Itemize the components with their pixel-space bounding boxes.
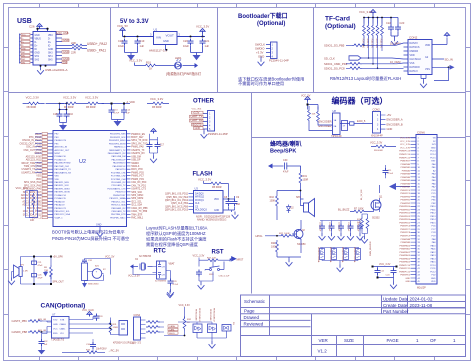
svg-text:PC14: PC14 <box>430 154 436 156</box>
right pin stubs <box>56 35 64 63</box>
svg-text:FMC_NBL1: FMC_NBL1 <box>131 218 144 220</box>
series resistor R30 <box>340 123 373 125</box>
svg-text:22R: 22R <box>71 41 76 45</box>
svg-text:Beep/SPK: Beep/SPK <box>270 149 296 155</box>
svg-text:TXD: TXD <box>53 320 58 322</box>
svg-text:VCC_3.3V: VCC_3.3V <box>193 255 205 258</box>
mcu inside right pin names <box>107 134 126 220</box>
svg-text:PE1/FMC_NBL1: PE1/FMC_NBL1 <box>110 217 126 219</box>
svg-text:FB 600R: FB 600R <box>152 106 162 109</box>
svg-text:VBU: VBU <box>48 35 53 37</box>
svg-text:OF: OF <box>430 338 437 343</box>
svg-text:CAN_RX_PD0: CAN_RX_PD0 <box>131 181 147 184</box>
ground right <box>191 46 203 55</box>
svg-text:ANT/OSC_IN: ANT/OSC_IN <box>55 146 68 149</box>
svg-text:VDD: VDD <box>425 44 430 47</box>
svg-text:PWM3_PC7: PWM3_PC7 <box>131 176 144 178</box>
capacitor C1 <box>122 39 128 46</box>
svg-text:VDD: VDD <box>214 199 219 201</box>
svg-text:DO/DQ1: DO/DQ1 <box>195 200 205 202</box>
svg-text:PA12: PA12 <box>431 251 437 254</box>
svg-text:PB14: PB14 <box>430 219 436 221</box>
svg-text:VCC_3.3V: VCC_3.3V <box>400 138 410 140</box>
svg-text:1uF: 1uF <box>205 44 210 48</box>
svg-text:PA15: PA15 <box>431 261 437 264</box>
svg-text:GND: GND <box>431 278 436 280</box>
svg-text:PWM/PA15: PWM/PA15 <box>399 261 410 264</box>
svg-text:C16: C16 <box>69 113 74 116</box>
svg-text:Update Date: Update Date <box>383 296 409 301</box>
svg-text:PWM/PA5: PWM/PA5 <box>401 179 411 182</box>
series resistors <box>28 320 42 323</box>
svg-text:SHLD: SHLD <box>169 333 175 335</box>
svg-text:PC13: PC13 <box>430 151 436 153</box>
svg-text:PC6/TIM3_CH1: PC6/TIM3_CH1 <box>111 172 127 174</box>
buzzer BZ1 <box>92 269 102 279</box>
svg-text:PESD1CAN: PESD1CAN <box>209 309 212 321</box>
svg-text:GND: GND <box>214 210 219 212</box>
transistor Q2 beep <box>294 230 303 239</box>
section divider vertical center <box>251 93 253 294</box>
svg-text:PWM/PA7: PWM/PA7 <box>401 186 411 189</box>
svg-text:QSPI_BK1_IO0_PD11: QSPI_BK1_IO0_PD11 <box>165 194 189 196</box>
cap C28 <box>205 267 213 271</box>
svg-text:(Optional): (Optional) <box>325 23 356 30</box>
note text bootloader usage <box>238 76 304 88</box>
border zone tick marks right <box>466 48 471 315</box>
svg-text:Part Number: Part Number <box>383 309 409 314</box>
svg-text:PC7/TIM3_CH2: PC7/TIM3_CH2 <box>111 176 127 178</box>
section divider vertical 5V/Bootloader <box>217 8 219 93</box>
svg-text:4.7uF: 4.7uF <box>114 112 120 114</box>
cap C11 <box>385 165 387 168</box>
svg-text:PB9/CAN1_TX: PB9/CAN1_TX <box>112 210 126 213</box>
esd diode D5 <box>333 248 335 251</box>
svg-text:SS8050: SS8050 <box>297 243 306 246</box>
svg-text:VCC_3.3V: VCC_3.3V <box>85 96 98 100</box>
svg-text:32.768KHZ: 32.768KHZ <box>155 281 167 283</box>
holder CON <box>82 263 88 281</box>
svg-text:GND: GND <box>96 224 102 227</box>
cap C25 <box>32 274 37 277</box>
note text boot0 <box>52 229 129 243</box>
gnd arrow top <box>167 291 174 298</box>
svg-text:SPI3_MOSI: SPI3_MOSI <box>131 198 143 200</box>
svg-text:U1: U1 <box>154 28 158 32</box>
svg-text:QSPI_BK1_IO1_PD12: QSPI_BK1_IO1_PD12 <box>165 200 189 202</box>
svg-text:C23: C23 <box>400 21 405 25</box>
section divider horizontal top row <box>9 92 466 94</box>
svg-text:GND: GND <box>53 324 58 326</box>
capacitor C4 <box>200 39 206 46</box>
svg-text:PWM/A2: PWM/A2 <box>402 169 411 172</box>
mosfet Q1 <box>371 200 381 210</box>
svg-text:PA4/SPI1_NSS: PA4/SPI1_NSS <box>55 181 70 184</box>
svg-text:USB-uCeF001-A: USB-uCeF001-A <box>45 68 68 72</box>
svg-text:SH4: SH4 <box>22 62 26 64</box>
svg-text:C21: C21 <box>205 39 210 43</box>
svg-text:1.0R: 1.0R <box>23 271 28 273</box>
svg-text:32.768KHZ: 32.768KHZ <box>139 255 152 258</box>
svg-text:VDD: VDD <box>55 179 60 181</box>
cap bank C34 <box>350 221 352 224</box>
cap C31 <box>82 259 87 264</box>
svg-text:U3: U3 <box>195 187 199 191</box>
svg-text:VCC_3.3V: VCC_3.3V <box>63 96 76 100</box>
svg-text:PWM/PA1: PWM/PA1 <box>401 166 411 169</box>
mcu inside left pin names <box>55 134 72 220</box>
cap C14 <box>121 108 127 115</box>
svg-text:C17: C17 <box>160 144 165 147</box>
svg-text:PESD1CAN-U: PESD1CAN-U <box>198 308 201 322</box>
svg-text:→RC_5V: →RC_5V <box>108 349 119 353</box>
svg-text:PA12/USB_DP: PA12/USB_DP <box>112 159 126 162</box>
svg-text:VCC_3V3: VCC_3V3 <box>192 108 203 110</box>
svg-text:PB10: PB10 <box>430 206 436 208</box>
svg-text:GND: GND <box>22 48 27 50</box>
svg-text:CH: CH <box>162 275 166 277</box>
wire top rail to connector <box>38 29 48 32</box>
svg-text:PC1/ADC11: PC1/ADC11 <box>55 159 67 162</box>
pullup resistor R32 <box>183 317 186 331</box>
wires right of U7 <box>69 317 93 334</box>
svg-text:PWM/PC7: PWM/PC7 <box>400 229 411 231</box>
svg-text:PWM/PC5: PWM/PC5 <box>400 193 411 195</box>
connector CON5 <box>208 111 215 132</box>
svg-text:DAT0/DO: DAT0/DO <box>410 66 420 69</box>
MCU U2 <box>53 131 127 227</box>
svg-text:SPK: SPK <box>296 196 301 199</box>
svg-text:PA10/USART1_RX: PA10/USART1_RX <box>108 152 126 155</box>
svg-text:1K: 1K <box>149 67 152 71</box>
resistor R29 <box>317 110 320 124</box>
svg-text:Bootloader下载口: Bootloader下载口 <box>238 12 288 20</box>
svg-text:CAN(Optional): CAN(Optional) <box>41 303 86 310</box>
svg-text:AMS1117-3.3: AMS1117-3.3 <box>149 49 167 53</box>
flash right wires <box>223 199 235 210</box>
svg-text:VCC_3.3V: VCC_3.3V <box>179 304 191 307</box>
note text flash layout <box>146 225 208 249</box>
svg-text:PZ254V-11-04P: PZ254V-11-04P <box>269 59 289 63</box>
svg-text:PA2/USART2_TX: PA2/USART2_TX <box>55 168 72 171</box>
svg-text:10uF: 10uF <box>183 44 189 48</box>
TF card socket CON2 <box>408 40 432 75</box>
svg-text:VCC_3.3V: VCC_3.3V <box>370 141 383 145</box>
buffer stage 2 <box>342 121 348 131</box>
svg-text:VBUS: VBUS <box>35 39 42 41</box>
svg-text:PA13: PA13 <box>431 254 437 257</box>
decoupling caps under beads <box>60 104 67 112</box>
svg-text:PWM/PA3: PWM/PA3 <box>401 173 411 176</box>
svg-text:VCC_3.3V: VCC_3.3V <box>16 186 29 190</box>
input net arrow flag <box>268 164 273 169</box>
rail <box>308 102 319 110</box>
svg-text:PA8/MCO_1: PA8/MCO_1 <box>114 146 126 149</box>
svg-text:C34 4.7uF: C34 4.7uF <box>347 222 349 232</box>
svg-text:CANTX_PB9: CANTX_PB9 <box>12 319 28 323</box>
vcc can arrow <box>87 312 92 317</box>
power small arrow <box>444 33 449 38</box>
cap bank C32 <box>331 221 333 224</box>
svg-text:PA15/JTDI: PA15/JTDI <box>116 168 126 171</box>
svg-text:PWM/PC8: PWM/PC8 <box>400 232 411 234</box>
top rail <box>364 15 398 25</box>
svg-text:PA14: PA14 <box>431 257 437 260</box>
big left arrow net flag <box>389 183 396 190</box>
svg-text:PC9/TIM3_CH4: PC9/TIM3_CH4 <box>111 179 127 181</box>
esd diode D7 <box>357 248 359 251</box>
svg-text:TIM4_ETR: TIM4_ETR <box>131 214 142 216</box>
svg-text:CANH: CANH <box>169 325 176 328</box>
svg-text:CON2: CON2 <box>409 36 418 40</box>
svg-text:GND: GND <box>163 39 169 43</box>
svg-text:PWM/PB15: PWM/PB15 <box>399 223 411 225</box>
regulator gnd pin <box>166 45 168 51</box>
svg-text:SPI3_MISO: SPI3_MISO <box>131 195 143 197</box>
speaker SPK1 <box>19 267 22 277</box>
svg-text:VCC_3.3V: VCC_3.3V <box>379 263 391 266</box>
left pin bus wire <box>20 34 34 64</box>
border zone tick marks top <box>40 4 435 8</box>
border zone tick marks bottom <box>40 357 435 361</box>
svg-text:NAND: W25N01GVZE1G: NAND: W25N01GVZE1G <box>197 217 226 221</box>
svg-text:1uF: 1uF <box>44 344 48 346</box>
svg-text:PA11/USB_DM: PA11/USB_DM <box>111 155 125 158</box>
svg-text:C15: C15 <box>53 113 58 116</box>
esd diode pair 1 <box>193 324 202 333</box>
ferrite bead filter <box>64 102 78 105</box>
esd diode pair 2 <box>208 324 217 333</box>
svg-text:VCC_3.3V: VCC_3.3V <box>400 144 410 146</box>
svg-text:PWM/PC6: PWM/PC6 <box>400 226 411 228</box>
svg-text:SW1: SW1 <box>209 274 215 276</box>
CAN 2pin connector <box>119 321 128 336</box>
svg-text:V1.2: V1.2 <box>318 349 328 354</box>
svg-text:PA10: PA10 <box>431 244 437 247</box>
svg-text:VCC_3.3V: VCC_3.3V <box>196 25 209 29</box>
svg-text:PWM/PA11: PWM/PA11 <box>400 248 411 251</box>
svg-text:PESD3V3L1BA: PESD3V3L1BA <box>317 247 320 263</box>
svg-text:PD1/CAN1_TX: PD1/CAN1_TX <box>112 184 127 187</box>
right side of tf card <box>432 38 449 67</box>
svg-text:PC10: PC10 <box>430 265 436 267</box>
svg-text:C31 4.7uF: C31 4.7uF <box>318 222 320 232</box>
svg-text:PB1/ADC9: PB1/ADC9 <box>55 204 66 207</box>
svg-text:10uF: 10uF <box>118 44 124 48</box>
svg-text:ID: ID <box>35 49 38 51</box>
svg-text:PB12: PB12 <box>430 213 436 215</box>
svg-text:TF-Card: TF-Card <box>325 16 350 23</box>
connector header P2 <box>271 42 278 59</box>
svg-text:C36_0.1uF: C36_0.1uF <box>219 276 230 278</box>
svg-text:SH5: SH5 <box>48 60 53 62</box>
svg-text:PWR/DC_EN: PWR/DC_EN <box>131 134 145 136</box>
resistor R8 <box>50 265 53 279</box>
svg-text:PESD1CAN-U: PESD1CAN-U <box>213 308 216 322</box>
reset button SW1 <box>210 269 212 271</box>
svg-text:PA3/USART2_RX: PA3/USART2_RX <box>55 171 72 174</box>
svg-text:PB3/JTDO: PB3/JTDO <box>116 192 126 194</box>
svg-text:(电源指示灯)PWR指示灯: (电源指示灯)PWR指示灯 <box>166 71 202 76</box>
ferrite bead filter <box>86 102 100 105</box>
svg-text:PWM/PB14: PWM/PB14 <box>399 219 411 221</box>
svg-text:C32 4.7uF: C32 4.7uF <box>328 222 330 232</box>
speaker gnd <box>12 272 14 278</box>
svg-text:FB 600R: FB 600R <box>64 106 74 109</box>
can gnd <box>41 331 43 333</box>
svg-text:PWM/PC11: PWM/PC11 <box>399 268 411 270</box>
svg-text:FB 600R: FB 600R <box>212 186 222 189</box>
svg-text:PWM/PC10: PWM/PC10 <box>399 265 411 267</box>
svg-text:PE4/BOOT0: PE4/BOOT0 <box>55 140 67 142</box>
capacitor C23 <box>395 25 401 32</box>
svg-text:PA13/SWDIO: PA13/SWDIO <box>113 162 126 165</box>
svg-text:2024-01-02: 2024-01-02 <box>410 296 434 301</box>
svg-text:VCC_CAN: VCC_CAN <box>82 309 94 312</box>
svg-text:PA0-WKUP/TIM2: PA0-WKUP/TIM2 <box>55 162 72 165</box>
svg-text:VDD: VDD <box>431 281 436 283</box>
svg-text:需要在程序里降低QSPI速度: 需要在程序里降低QSPI速度 <box>146 241 199 248</box>
base resistor R22 <box>279 234 293 237</box>
svg-text:VIN: VIN <box>156 36 161 40</box>
main rail wire <box>123 33 206 37</box>
svg-text:PA7/SPI1_MOSI: PA7/SPI1_MOSI <box>55 191 71 194</box>
svg-text:Drawed: Drawed <box>244 315 260 320</box>
power flag VCC_5V <box>120 28 125 33</box>
schmitt buffer U8 <box>333 113 341 135</box>
svg-text:OTHER: OTHER <box>193 99 215 105</box>
svg-text:PC0/ADC10: PC0/ADC10 <box>55 155 67 158</box>
svg-text:Create Date: Create Date <box>383 303 408 308</box>
svg-text:PA1/TIM2_CH2: PA1/TIM2_CH2 <box>55 165 70 168</box>
svg-text:R22_100R: R22_100R <box>279 233 290 235</box>
svg-text:PB10/I2C2_SCL: PB10/I2C2_SCL <box>55 211 71 213</box>
svg-text:NRST: NRST <box>237 259 244 262</box>
svg-text:SD_CLK: SD_CLK <box>324 57 335 61</box>
svg-text:GND: GND <box>405 278 410 280</box>
resistor R27 <box>206 259 220 262</box>
svg-text:PWM/PA13: PWM/PA13 <box>399 254 410 257</box>
svg-text:100K: 100K <box>270 200 276 203</box>
svg-text:PB13: PB13 <box>430 216 436 218</box>
svg-text:QSPI_CLK_PB2: QSPI_CLK_PB2 <box>171 203 189 205</box>
svg-text:HOLD/DQ3: HOLD/DQ3 <box>195 210 207 212</box>
svg-text:PB4/NJTRST: PB4/NJTRST <box>113 195 126 197</box>
arrow right end <box>195 63 199 68</box>
svg-text:VCC_3.3V: VCC_3.3V <box>198 178 211 182</box>
wires usb data <box>64 46 87 49</box>
diode D2 <box>287 205 291 214</box>
svg-text:10K: 10K <box>312 114 316 116</box>
svg-text:RST: RST <box>212 250 224 256</box>
pin net labels <box>190 111 204 129</box>
NRST arrow <box>230 257 236 262</box>
svg-text:PWM/PA6: PWM/PA6 <box>401 182 411 185</box>
svg-text:RXD: RXD <box>53 333 58 335</box>
svg-text:GND: GND <box>431 148 436 150</box>
svg-text:CANL: CANL <box>169 328 176 331</box>
svg-text:4.7uF: 4.7uF <box>173 284 179 286</box>
svg-text:PWM3_PC9: PWM3_PC9 <box>131 179 144 181</box>
svg-text:QSPI_BK1_NCS_PB6: QSPI_BK1_NCS_PB6 <box>165 206 189 208</box>
svg-text:SIZE: SIZE <box>344 338 354 343</box>
resistor R5 USBD+ <box>70 44 84 47</box>
svg-text:PWM/PA14: PWM/PA14 <box>399 257 410 260</box>
svg-text:PA15_JTDI: PA15_JTDI <box>131 168 143 171</box>
ferrite bead FB3 <box>209 182 223 185</box>
svg-text:TJA1051T/3: TJA1051T/3 <box>51 339 65 342</box>
svg-text:Reviewed: Reviewed <box>244 321 264 326</box>
power flag VCC_3.3V tf <box>370 10 375 15</box>
svg-text:10K: 10K <box>357 222 361 224</box>
svg-text:PWM/PB2: PWM/PB2 <box>400 203 410 205</box>
svg-text:PWM/PA9: PWM/PA9 <box>401 241 411 244</box>
svg-text:VCC_3.3V: VCC_3.3V <box>129 59 142 63</box>
svg-text:(Optional): (Optional) <box>257 21 285 27</box>
svg-text:PC5/ADC15: PC5/ADC15 <box>55 197 67 200</box>
svg-text:I2C1_SDA: I2C1_SDA <box>131 204 142 207</box>
pullup bottoms to sd bus <box>364 37 382 68</box>
regulator U1 AMS1117 <box>154 32 178 45</box>
caps C8 C9 <box>226 199 232 206</box>
svg-text:100K: 100K <box>271 246 277 249</box>
CAN CON4 connector <box>134 317 141 340</box>
svg-text:1uF: 1uF <box>140 44 145 48</box>
svg-text:PWM/PC14: PWM/PC14 <box>399 154 411 156</box>
tvs diode pair 3 <box>222 325 231 332</box>
svg-text:SWDIO: SWDIO <box>131 163 139 165</box>
ground left <box>125 46 138 56</box>
rails buzzer <box>85 259 111 281</box>
load cap block <box>157 261 167 279</box>
svg-text:SH3: SH3 <box>48 53 53 55</box>
svg-text:PA5/SPI1_SCK: PA5/SPI1_SCK <box>55 184 70 187</box>
svg-text:PZ254V-11-05P: PZ254V-11-05P <box>208 132 228 136</box>
svg-text:120R: 120R <box>113 327 119 329</box>
capacitor C3 <box>188 39 194 46</box>
svg-text:VSS: VSS <box>425 68 430 71</box>
svg-text:QSPI_BK1_IO2_PE2: QSPI_BK1_IO2_PE2 <box>166 197 188 199</box>
svg-text:SPK1_TX_RXD: SPK1_TX_RXD <box>131 140 148 142</box>
svg-text:CON4: CON4 <box>134 314 141 317</box>
svg-text:VCC_3.3V: VCC_3.3V <box>359 10 372 14</box>
bottom left corner labels <box>62 349 119 354</box>
left pin label boxes <box>21 33 30 64</box>
svg-text:PC11: PC11 <box>430 268 436 270</box>
svg-text:PB7/I2C1_SDA: PB7/I2C1_SDA <box>111 204 126 207</box>
svg-text:SD_IN: SD_IN <box>445 57 453 61</box>
svg-text:PB0/ADC8: PB0/ADC8 <box>55 200 66 203</box>
svg-text:SPI3_SCK: SPI3_SCK <box>131 192 142 194</box>
border zone tick marks left <box>4 48 9 315</box>
esd diode D4 <box>321 248 323 251</box>
ferrite bead filter <box>27 102 41 105</box>
svg-text:2023-11-08: 2023-11-08 <box>410 303 433 308</box>
svg-text:BOOT_KEY: BOOT_KEY <box>131 137 144 139</box>
svg-text:10nF/2KV: 10nF/2KV <box>96 348 107 351</box>
svg-text:USBD+_PA12: USBD+_PA12 <box>87 42 107 46</box>
svg-text:ANT/OSC_OUT: ANT/OSC_OUT <box>55 149 71 152</box>
esd diode D6 <box>345 248 347 251</box>
svg-text:USBD-_PA11: USBD-_PA11 <box>87 49 106 53</box>
svg-text:WP/DQ2: WP/DQ2 <box>195 197 205 199</box>
svg-text:100R: 100R <box>303 179 309 182</box>
svg-text:SDIO1_D3_PB5: SDIO1_D3_PB5 <box>324 43 345 47</box>
svg-text:CS: CS <box>195 206 199 208</box>
svg-text:C18: C18 <box>118 39 123 43</box>
svg-text:KF350V-3.5-2P或插针-1*2: KF350V-3.5-2P或插针-1*2 <box>113 341 142 345</box>
title block frame <box>241 295 466 357</box>
